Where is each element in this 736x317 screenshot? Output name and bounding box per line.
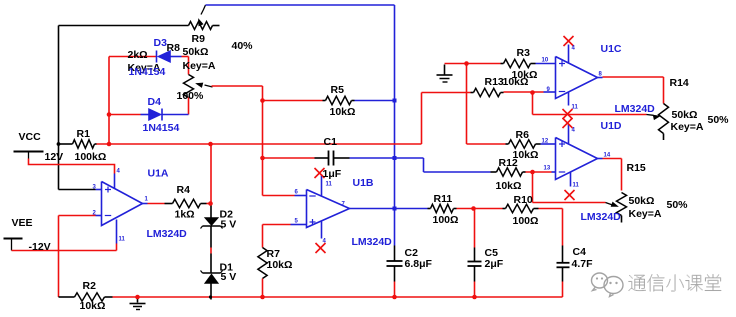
- svg-text:1N4154: 1N4154: [129, 66, 166, 78]
- svg-text:R2: R2: [83, 280, 97, 292]
- svg-text:50kΩ: 50kΩ: [629, 195, 655, 207]
- svg-text:VCC: VCC: [19, 131, 42, 143]
- svg-text:2kΩ: 2kΩ: [128, 49, 148, 61]
- svg-text:4.7F: 4.7F: [572, 258, 594, 270]
- svg-text:5 V: 5 V: [221, 218, 237, 230]
- svg-text:10kΩ: 10kΩ: [80, 300, 106, 312]
- svg-text:11: 11: [119, 236, 126, 242]
- svg-text:D4: D4: [148, 96, 162, 108]
- svg-text:LM324D: LM324D: [147, 228, 188, 240]
- svg-text:LM324D: LM324D: [615, 103, 656, 115]
- svg-text:1μF: 1μF: [323, 168, 342, 180]
- svg-text:50%: 50%: [667, 199, 689, 211]
- svg-text:R11: R11: [434, 193, 453, 205]
- svg-text:Key=A: Key=A: [183, 60, 216, 72]
- svg-text:100Ω: 100Ω: [513, 215, 539, 227]
- svg-text:R3: R3: [517, 47, 531, 59]
- svg-text:C4: C4: [573, 246, 587, 258]
- svg-text:10kΩ: 10kΩ: [503, 76, 529, 88]
- svg-text:40%: 40%: [232, 40, 254, 52]
- svg-text:R1: R1: [77, 128, 91, 140]
- svg-text:13: 13: [544, 165, 551, 171]
- svg-text:R9: R9: [192, 33, 206, 45]
- svg-text:R10: R10: [514, 194, 533, 206]
- svg-text:D3: D3: [154, 37, 168, 49]
- svg-text:5 V: 5 V: [221, 271, 237, 283]
- svg-text:U1C: U1C: [601, 43, 622, 55]
- svg-text:50kΩ: 50kΩ: [672, 109, 698, 121]
- svg-text:6.8μF: 6.8μF: [405, 258, 433, 270]
- svg-text:11: 11: [572, 104, 579, 110]
- svg-text:R15: R15: [627, 162, 646, 174]
- svg-text:LM324D: LM324D: [581, 211, 622, 223]
- svg-text:R6: R6: [516, 129, 530, 141]
- svg-text:14: 14: [604, 152, 611, 158]
- svg-text:U1A: U1A: [148, 167, 169, 179]
- svg-text:12: 12: [542, 138, 549, 144]
- svg-text:12V: 12V: [45, 151, 64, 163]
- svg-text:2μF: 2μF: [485, 258, 504, 270]
- svg-text:50kΩ: 50kΩ: [183, 46, 209, 58]
- svg-text:11: 11: [326, 181, 333, 187]
- svg-text:11: 11: [573, 182, 580, 188]
- svg-text:R8: R8: [167, 42, 181, 54]
- svg-text:100%: 100%: [177, 90, 205, 102]
- svg-text:10kΩ: 10kΩ: [496, 180, 522, 192]
- svg-text:C1: C1: [324, 136, 338, 148]
- svg-text:U1B: U1B: [353, 177, 374, 189]
- svg-text:R12: R12: [499, 157, 518, 169]
- svg-text:10: 10: [542, 57, 549, 63]
- svg-text:1N4154: 1N4154: [143, 122, 180, 134]
- svg-text:100kΩ: 100kΩ: [75, 151, 107, 163]
- svg-text:LM324D: LM324D: [352, 236, 393, 248]
- svg-text:1kΩ: 1kΩ: [175, 208, 195, 220]
- svg-text:10kΩ: 10kΩ: [330, 106, 356, 118]
- svg-text:R4: R4: [177, 184, 191, 196]
- svg-text:10kΩ: 10kΩ: [267, 259, 293, 271]
- svg-text:Key=A: Key=A: [671, 121, 704, 133]
- svg-text:R13: R13: [485, 76, 504, 88]
- svg-text:-12V: -12V: [29, 241, 51, 253]
- svg-text:U1D: U1D: [601, 120, 622, 132]
- svg-text:VEE: VEE: [12, 217, 33, 229]
- svg-text:Key=A: Key=A: [629, 208, 662, 220]
- svg-text:100Ω: 100Ω: [433, 214, 459, 226]
- svg-text:R5: R5: [331, 84, 345, 96]
- svg-text:R14: R14: [670, 77, 689, 89]
- svg-text:50%: 50%: [708, 114, 730, 126]
